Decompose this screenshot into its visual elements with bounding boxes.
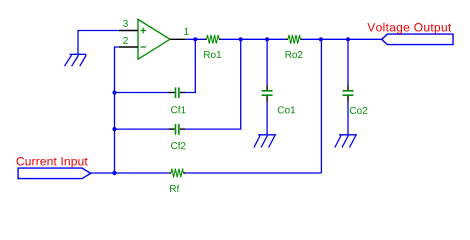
node Co2 junction (346, 37, 350, 41)
wire Ro1 to Ro2 (221, 38, 286, 40)
pin 2 number (123, 37, 128, 44)
capacitor Co1 (262, 85, 273, 102)
ground GND3 (335, 135, 357, 148)
label Ro2 (286, 51, 303, 58)
pin 3 stub (119, 30, 138, 32)
node Cf1 junction (112, 90, 116, 94)
wire ground to noninverting input (78, 31, 119, 55)
port Current Input (17, 157, 91, 179)
wire Co1 to ground (266, 102, 268, 135)
node pin1 junction (193, 37, 197, 41)
pin 1 stub (170, 38, 186, 40)
node feedback junction (319, 37, 323, 41)
wire Co2 to ground (347, 102, 349, 135)
pin 1 number (184, 28, 188, 35)
op-amp U1 (138, 19, 170, 59)
label Rf (170, 185, 179, 192)
wire feedback vertical (320, 39, 322, 173)
ground GND2 (254, 135, 276, 148)
wire inverting input down to feedback rail (115, 47, 119, 173)
label Ro1 (204, 51, 221, 58)
wire Cf2 to inverting node (115, 128, 169, 130)
node Ro1 right junction (239, 37, 243, 41)
wire Ro2 to output port (303, 38, 382, 40)
label Co2 (350, 107, 367, 114)
ground GND1 (65, 54, 87, 66)
capacitor Cf1 (168, 87, 185, 98)
node Co1 junction (265, 37, 269, 41)
wire Co1 branch upper (266, 39, 268, 85)
label Co1 (278, 106, 295, 113)
wire pin1 junction down to Cf1 (185, 39, 195, 92)
resistor Ro2 (286, 35, 303, 44)
port Voltage Output (367, 23, 453, 45)
pin 2 stub (119, 46, 138, 48)
wire Cf1 to inverting node (115, 92, 169, 94)
capacitor Cf2 (168, 124, 185, 135)
node Cf2 junction (112, 127, 116, 131)
label Cf1 (171, 106, 186, 113)
label Cf2 (171, 142, 186, 149)
resistor Rf (169, 169, 186, 178)
capacitor Co2 (343, 85, 354, 102)
node input junction (112, 171, 116, 175)
wire junction down to Cf2 (185, 39, 241, 129)
wire Co2 branch upper (347, 39, 349, 85)
wire pin1 to Ro1 (186, 38, 204, 40)
resistor Ro1 (205, 35, 222, 44)
wire input port to feedback rail (91, 172, 169, 174)
wire Rf to feedback vertical (186, 172, 322, 174)
pin 3 number (123, 20, 128, 27)
